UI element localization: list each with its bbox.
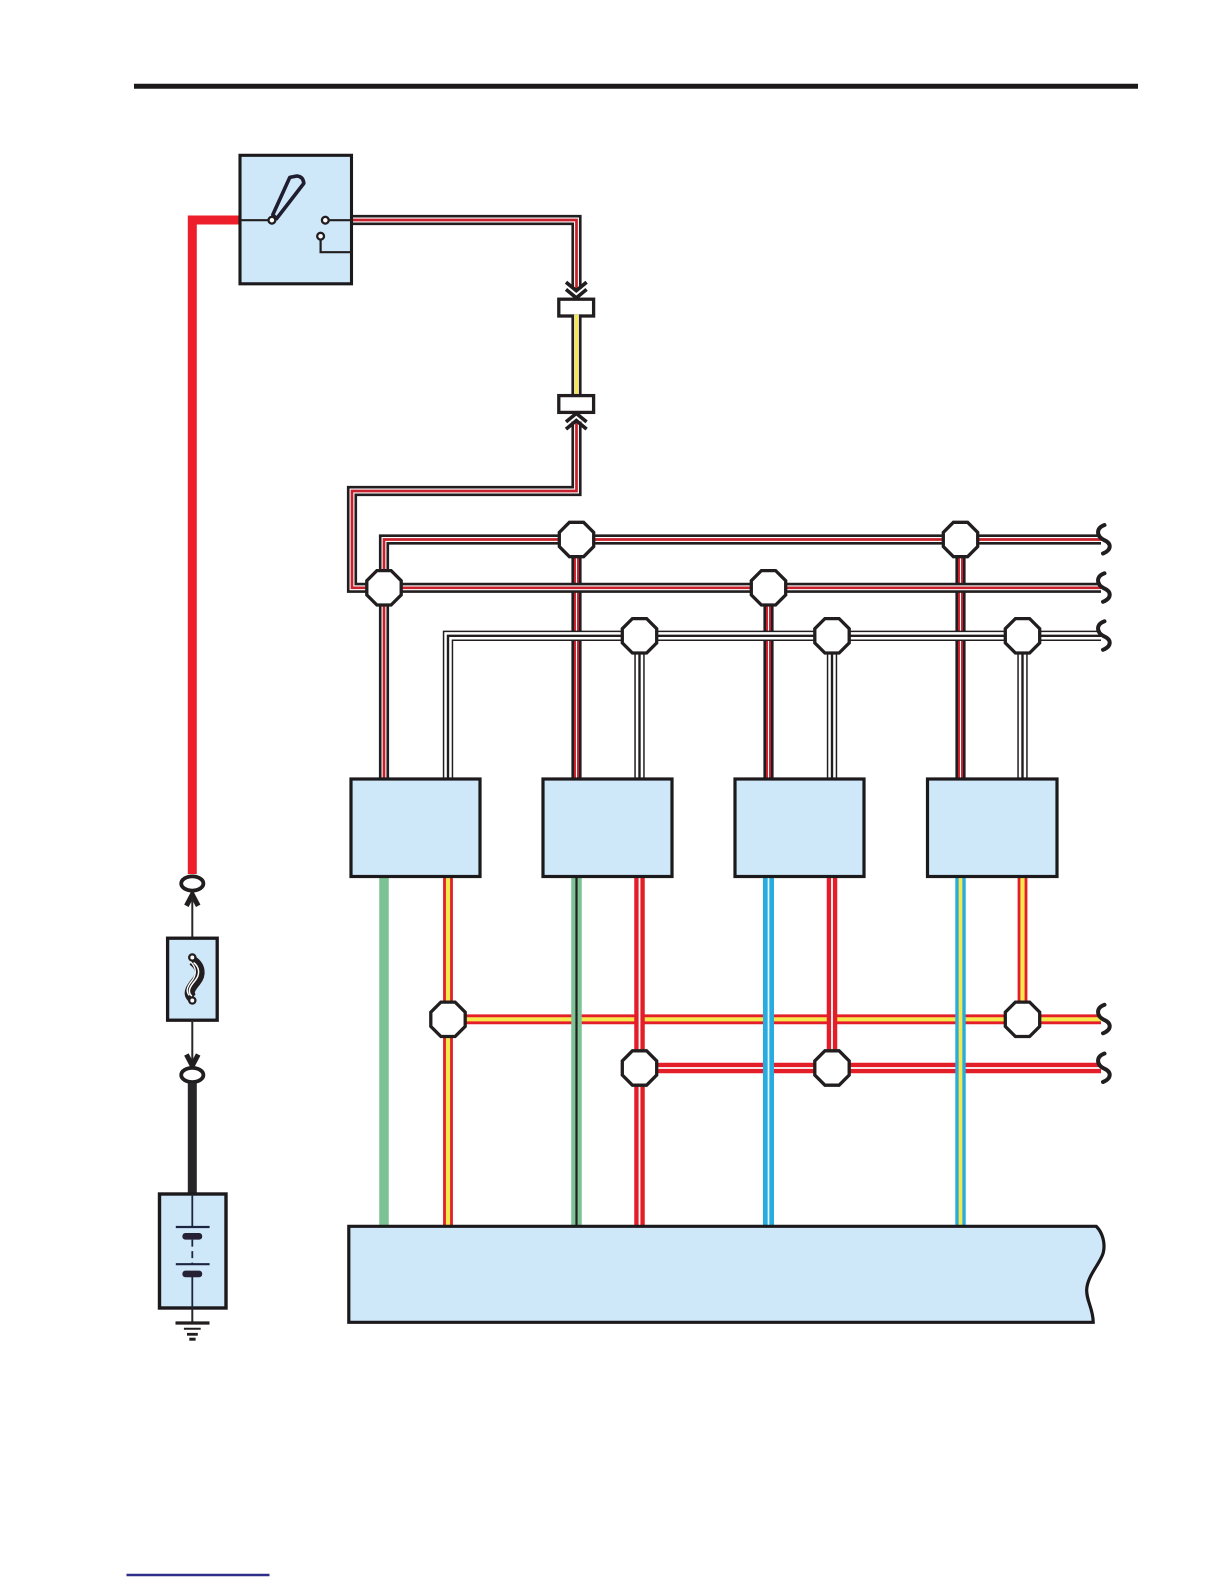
- relay box U1: [351, 779, 480, 877]
- junction J7: [1005, 619, 1039, 653]
- junction J10: [622, 1051, 656, 1085]
- battery BAT box: [160, 1194, 227, 1308]
- ground symbol: [176, 1323, 210, 1339]
- wire drop from junction J4 to relay box U3 (red w/ white stripe): [763, 588, 773, 780]
- bus 2 with feed wire from connector C2 (black-red striped wire): [352, 422, 1101, 588]
- junction J4: [751, 571, 785, 605]
- wire break symbol on bus 3: [1098, 621, 1110, 650]
- wire drop from junction J3 to relay box U4 (red w/ white stripe): [955, 540, 965, 781]
- switch lower contact: [317, 233, 324, 240]
- wire break symbol on bus 1: [1098, 525, 1110, 554]
- light blue w/ yellow stripe wire from relay box U4 to bottom junction block: [955, 876, 965, 1227]
- white wire drop from junction J5 to relay box U2: [634, 636, 644, 780]
- thick black wire from node B to battery BAT: [188, 1083, 197, 1196]
- fusible link lower terminal: [189, 997, 195, 1003]
- thin lead from fusible link FL1 to node B: [191, 1020, 193, 1062]
- relay box U3: [735, 779, 864, 877]
- junction J9: [1005, 1002, 1039, 1036]
- wire break symbol on bus A: [1098, 1005, 1110, 1034]
- junction J8: [431, 1002, 465, 1036]
- battery cell 1 positive plate: [176, 1226, 210, 1228]
- wire break symbol on bus 2: [1098, 573, 1110, 602]
- yellow-red wire from relay box U1 through junction J8 to bottom junction block: [443, 876, 453, 1227]
- light blue wire from relay box U3 to bottom junction block: [763, 876, 774, 1227]
- bus 3 (double white wire): [448, 636, 1101, 780]
- switch pivot contact: [269, 217, 276, 224]
- junction J2: [559, 522, 593, 556]
- red w/ white stripe wire from relay box U3 to junction J11: [827, 876, 838, 1068]
- footer link line: [127, 1574, 270, 1576]
- junction J3: [943, 522, 977, 556]
- battery internal lead: [191, 1194, 193, 1226]
- wire drop from junction J2 to relay box U2 (red w/ white stripe): [571, 540, 581, 781]
- fusible link upper terminal: [189, 954, 195, 960]
- switch lower contact lead: [321, 240, 352, 253]
- bus B (red w/ white stripe, lower): [640, 1063, 1102, 1074]
- arrow up into node A: [186, 895, 198, 906]
- junction J6: [815, 619, 849, 653]
- node A ellipse (battery feed splice): [181, 876, 203, 890]
- relay box U2: [543, 779, 672, 877]
- junction J11: [815, 1051, 849, 1085]
- bus A (yellow w/ red stripe, lower): [448, 1014, 1101, 1024]
- junction J5: [622, 619, 656, 653]
- thin lead from node A to fusible link FL1: [191, 898, 193, 940]
- fusible link FL1 box: [168, 938, 218, 1020]
- yellow-red wire from relay box U4 to junction J9: [1018, 876, 1028, 1019]
- wire drop from junction J1 to relay box U1 (black-red striped): [379, 588, 389, 780]
- bottom junction block: [349, 1226, 1104, 1322]
- yellow wire between connectors C1 and C2: [571, 315, 581, 398]
- red w/ white stripe wire from relay box U2 through junction J10 to bottom junction block: [634, 876, 645, 1227]
- switch output contact: [322, 217, 329, 224]
- white wire drop from junction J7 to relay box U4: [1017, 636, 1027, 780]
- wire from ignition switch SW1 to connector C1 (black-red striped): [352, 220, 577, 289]
- wire break symbol on bus B: [1098, 1054, 1110, 1083]
- arrow down into node B: [186, 1055, 198, 1066]
- battery middle dashed lead: [191, 1240, 193, 1264]
- connector C2: [559, 396, 594, 413]
- connector C1: [559, 299, 594, 316]
- switch right lead: [329, 219, 352, 221]
- thick red battery feed wire: [192, 220, 240, 874]
- header rule: [134, 84, 1138, 89]
- bus 1 (black-red striped wire, top feed bus): [384, 540, 1101, 588]
- fusible link element: [187, 961, 200, 999]
- arrow into connector C2: [566, 413, 587, 429]
- node B ellipse: [181, 1068, 203, 1082]
- arrow into connector C1: [566, 282, 587, 298]
- green wire from relay box U1 to bottom junction block: [379, 876, 389, 1227]
- battery cell 1 negative plate: [182, 1233, 202, 1240]
- switch left lead: [240, 219, 269, 221]
- white wire drop from junction J6 to relay box U3: [827, 636, 837, 780]
- battery cell 2 positive plate: [176, 1263, 210, 1265]
- relay box U4: [928, 779, 1058, 877]
- lead from battery to ground: [191, 1308, 193, 1323]
- battery cell 2 negative plate: [182, 1271, 202, 1278]
- ignition switch SW1 box: [240, 155, 352, 283]
- battery lower internal lead: [191, 1277, 193, 1308]
- green w/ black stripe wire from relay box U2 to bottom junction block: [571, 876, 582, 1227]
- junction J1: [367, 571, 401, 605]
- switch lever: [273, 176, 304, 219]
